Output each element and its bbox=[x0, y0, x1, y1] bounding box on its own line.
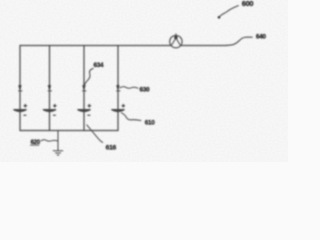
wire bottom rail bbox=[20, 130, 118, 132]
capacitor C3 bbox=[78, 104, 91, 115]
wire top rail right segment bbox=[181, 45, 227, 47]
capacitor C2 bbox=[43, 104, 56, 115]
svg-text:600: 600 bbox=[242, 0, 254, 8]
svg-text:630: 630 bbox=[140, 87, 151, 94]
node 616 label bbox=[87, 125, 117, 151]
node 630 label bbox=[120, 87, 150, 94]
wire branch 4 (right edge) bbox=[117, 46, 119, 131]
capacitor C4 bbox=[112, 104, 125, 111]
node 634 label bbox=[84, 62, 104, 85]
wire branch 3 bbox=[83, 46, 85, 131]
capacitor C1 bbox=[14, 104, 27, 115]
svg-text:634: 634 bbox=[94, 62, 105, 69]
diode D2 bbox=[48, 85, 51, 91]
diode D1 bbox=[19, 85, 22, 91]
wire branch 2 bbox=[49, 46, 51, 131]
svg-text:616: 616 bbox=[106, 144, 117, 151]
node 620 label bbox=[30, 139, 57, 146]
node 640 label bbox=[227, 33, 267, 45]
diode D3 bbox=[83, 85, 86, 91]
svg-text:610: 610 bbox=[145, 119, 156, 126]
wire branch 1 bbox=[19, 46, 21, 131]
diode D4 bbox=[117, 85, 120, 91]
current source U1 bbox=[170, 34, 182, 48]
svg-text:640: 640 bbox=[256, 33, 267, 40]
node 610 label bbox=[122, 113, 156, 127]
ground bbox=[53, 131, 63, 156]
wire top rail left segment bbox=[20, 45, 171, 47]
node 600 label bbox=[218, 0, 254, 19]
